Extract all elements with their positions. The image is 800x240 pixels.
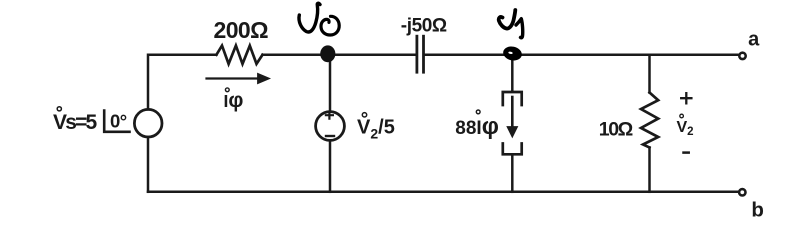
wire resistor to capacitor (263, 54, 416, 57)
svg-text:Vs=5: Vs=5 (53, 111, 98, 134)
svg-text:88Iφ: 88Iφ (455, 113, 499, 140)
svg-text:a: a (748, 29, 760, 51)
ring accent over V2/5 (362, 113, 366, 117)
svg-text:-j50Ω: -j50Ω (401, 16, 447, 37)
current source bottom bracket (503, 144, 522, 155)
ring accent over Iphi (225, 88, 229, 92)
capacitor C1 -j50ohm right plate (422, 36, 425, 72)
current source arrow head (507, 127, 518, 138)
wire right branch upper lead (648, 55, 651, 93)
svg-text:10Ω: 10Ω (599, 119, 633, 141)
minus sign V2 right (684, 151, 689, 154)
wire source lower lead (147, 137, 150, 192)
svg-text:0°: 0° (110, 110, 127, 131)
handwritten node label V1 (499, 10, 523, 38)
dependent source plus sign (326, 112, 333, 119)
resistor R1 200ohm zigzag (216, 46, 262, 64)
terminal b circle (739, 189, 745, 195)
ring accent over Vs (57, 107, 61, 111)
handwritten node label V0 (299, 3, 339, 35)
svg-text:b: b (751, 199, 764, 222)
wire right branch lower lead (648, 148, 651, 192)
terminal a circle (739, 53, 745, 59)
current arrow Iphi shaft (207, 77, 260, 79)
dependent source minus sign (326, 135, 334, 137)
capacitor C1 -j50ohm left plate (415, 36, 418, 72)
current arrow Iphi head (258, 73, 271, 84)
current source arrow shaft (511, 97, 514, 128)
wire capacitor to terminal a (425, 54, 738, 57)
wire V0 branch upper lead (329, 55, 332, 112)
svg-text:Iφ: Iφ (224, 89, 244, 112)
voltage source Vs circle (134, 109, 162, 137)
angle symbol bracket (104, 111, 129, 132)
resistor R2 10ohm zigzag (641, 93, 658, 148)
wire V1 branch lower lead (511, 154, 514, 192)
current source top bracket (503, 92, 522, 105)
wire bottom rail (148, 191, 738, 194)
wire top-left corner segment (148, 55, 216, 110)
node V1 scribble dot (502, 45, 523, 62)
ring accent over 88Iphi (476, 110, 480, 114)
svg-text:200Ω: 200Ω (214, 17, 269, 43)
dependent voltage source V2/5 circle (316, 112, 345, 141)
node V0 dot (320, 45, 335, 62)
ring accent over V2 right (680, 114, 684, 118)
wire V1 branch upper lead (511, 55, 514, 92)
plus sign V2 right (681, 93, 691, 103)
wire V0 branch lower lead (329, 140, 332, 191)
